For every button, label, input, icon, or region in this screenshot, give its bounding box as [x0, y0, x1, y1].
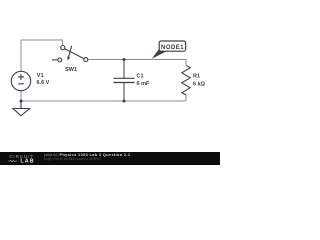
wire C1 branch: [123, 60, 125, 102]
voltage source V1 circle: [11, 71, 30, 90]
node flag NODE1 tail: [152, 48, 166, 59]
wire top-left L from V1 top to switch feed: [21, 40, 63, 72]
wire R1 bottom lead: [185, 95, 187, 101]
ground symbol: [13, 101, 30, 116]
svg-text:6.6 V: 6.6 V: [37, 80, 50, 86]
resistor R1 zigzag: [182, 65, 190, 95]
svg-text:V1: V1: [37, 73, 44, 79]
footer bar: [0, 152, 220, 165]
svg-text:http://circuitlab.com/c/59fh7: http://circuitlab.com/c/59fh7: [44, 157, 101, 161]
wire bottom rail: [21, 100, 186, 102]
capacitor C1 plates: [114, 78, 135, 82]
switch SW1: [52, 46, 88, 62]
svg-text:SW1: SW1: [65, 67, 77, 73]
node junction dot at C1 bottom: [123, 100, 126, 103]
footer logo resistor zigzag: [8, 160, 17, 162]
svg-text:R1: R1: [193, 74, 200, 80]
svg-text:NODE1: NODE1: [161, 45, 184, 51]
node junction dot at V1 ground: [20, 100, 23, 103]
switch SW1 arrowhead: [67, 56, 70, 60]
wire V1 bottom lead: [20, 91, 22, 101]
node flag NODE1 box: [159, 41, 185, 51]
svg-text:C1: C1: [137, 74, 144, 80]
node junction dot at C1 top: [123, 58, 126, 61]
svg-text:LAB: LAB: [20, 159, 33, 165]
wire from switch right terminal to top-right corner: [88, 60, 186, 66]
svg-text:6 mF: 6 mF: [137, 81, 150, 87]
svg-text:6 kΩ: 6 kΩ: [193, 81, 206, 87]
